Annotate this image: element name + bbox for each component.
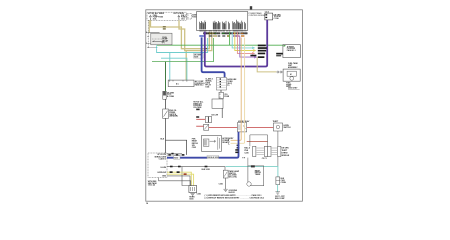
DLC relay box	[202, 135, 235, 151]
svg-text:SWITCH: SWITCH	[284, 127, 292, 129]
border frame	[146, 10, 303, 201]
svg-text:C305: C305	[197, 194, 201, 196]
svg-text:W/ LGTS): W/ LGTS)	[229, 176, 237, 178]
svg-text:C305: C305	[219, 184, 223, 186]
connector C410	[276, 177, 287, 185]
right row labels	[250, 45, 266, 58]
wire red R1	[196, 118, 205, 120]
svg-text:DK BLU S210: DK BLU S210	[208, 157, 219, 159]
label chip pump feed	[276, 53, 283, 57]
wire b7 to pairs	[277, 131, 279, 146]
PCM wire color code chips row2	[199, 35, 244, 36]
svg-text:TIMER: TIMER	[255, 174, 261, 176]
wire thin purple right P2	[240, 36, 256, 58]
horn component	[189, 186, 197, 193]
wire red R3	[209, 127, 238, 129]
svg-text:CONN: CONN	[281, 182, 287, 184]
svg-text:CIG LTR: CIG LTR	[211, 114, 219, 116]
wire green right G5	[229, 32, 231, 45]
note text block bottom left	[148, 181, 158, 187]
svg-text:MODULE: MODULE	[282, 155, 290, 157]
legend notes bottom	[205, 194, 264, 199]
svg-text:ASSEMBLY: ASSEMBLY	[288, 66, 298, 69]
svg-text:BLOCK: BLOCK	[229, 192, 236, 194]
wire yellow rows	[167, 172, 191, 185]
PCM box U1	[197, 12, 268, 31]
relay pin stub arrow	[156, 45, 157, 48]
wire cyan C2	[161, 58, 187, 80]
wire purple thick DLC	[205, 20, 267, 67]
tan pair chip	[205, 48, 208, 49]
left dashed box IP	[148, 153, 167, 178]
relay cluster small boxes	[196, 109, 211, 131]
svg-text:4: 4	[146, 31, 147, 34]
wire red R2	[196, 125, 203, 127]
right middle connector field	[250, 135, 268, 146]
svg-text:HORN SW: HORN SW	[158, 172, 167, 174]
wire drop x182	[182, 167, 189, 186]
svg-text:CONTROL MODULE: CONTROL MODULE	[249, 15, 268, 17]
connector pair left	[244, 146, 267, 160]
wire to fuse3	[220, 90, 222, 92]
fuse F1 FUEL PUMP	[150, 15, 164, 20]
fuse F3 below PCM	[219, 92, 230, 98]
svg-text:RELAY: RELAY	[222, 141, 229, 144]
PCM pin labels (vertical text marks)	[200, 20, 246, 30]
inline connector on tan	[277, 71, 283, 73]
svg-text:135-1 (2): 135-1 (2)	[148, 185, 156, 187]
bottom center row drop	[224, 167, 226, 171]
svg-text:( 2 ) WITHOUT REMOTE KEYLESS: ( 2 ) WITHOUT REMOTE KEYLESS ENTRY . . .…	[205, 197, 264, 200]
svg-text:CLASS 2: CLASS 2	[159, 158, 166, 161]
wire red R4	[247, 127, 274, 129]
svg-text:2: 2	[146, 43, 147, 45]
wire down to ground	[219, 178, 226, 189]
svg-text:S202: S202	[174, 157, 178, 159]
PCM pin stubs	[200, 30, 247, 34]
box instrument cluster right	[283, 45, 300, 58]
wire tan to pump T5	[257, 57, 276, 72]
tan wire labels	[163, 26, 166, 29]
ground G117	[275, 192, 286, 200]
svg-text:C1 B6: C1 B6	[274, 18, 279, 20]
wire green G1	[152, 38, 213, 62]
A/C compressor box	[168, 80, 205, 87]
wire navy thick	[202, 37, 225, 77]
ground G100	[189, 193, 201, 200]
svg-text:56: 56	[146, 203, 148, 205]
svg-text:(SENDER): (SENDER)	[169, 116, 178, 118]
box below fuse3	[193, 99, 223, 109]
svg-text:C230: C230	[244, 152, 248, 154]
wire navy row B	[167, 132, 245, 160]
DLC connector block	[205, 77, 237, 90]
connector half marks	[228, 139, 239, 148]
svg-text:PAGE 81-1: PAGE 81-1	[287, 49, 296, 52]
fuse block dashed box	[147, 12, 186, 20]
wire row D gray long	[167, 166, 225, 171]
page ref right	[288, 88, 300, 90]
wire tan T2	[179, 18, 212, 50]
wire relay feed	[149, 32, 160, 35]
labels under box	[288, 62, 298, 69]
connector pair right	[268, 146, 290, 157]
wire red-brown link	[247, 141, 268, 143]
wire tan T3 branch	[185, 51, 187, 80]
wire tan T1	[151, 18, 210, 48]
svg-text:C1: C1	[227, 85, 229, 87]
wire teal row bottom	[226, 166, 278, 177]
box B7 right	[273, 121, 292, 131]
svg-text:BLK S305: BLK S305	[202, 169, 210, 171]
fuse block small dashed box 2	[187, 13, 202, 19]
wire cyan C1	[157, 38, 208, 53]
splice label box S1	[194, 54, 204, 59]
wire cyan right C3	[232, 32, 254, 49]
wire G3	[165, 99, 167, 109]
wire tan fuse drop left	[148, 20, 150, 32]
connector C175	[163, 91, 175, 99]
wire teal down right	[277, 157, 279, 167]
DLC relay box left labels	[192, 138, 199, 149]
wire yellow right Y1	[235, 32, 255, 51]
svg-text:C205: C205	[192, 147, 196, 149]
page number bottom left	[146, 203, 148, 205]
svg-text:B CONN: B CONN	[167, 96, 175, 98]
fuse F2 IGN	[178, 15, 187, 20]
wire orange O2	[231, 38, 245, 144]
wire cyan upper row	[157, 44, 283, 46]
relay K1 fuel pump relay	[151, 33, 172, 45]
switch SW1 oil pressure	[163, 109, 178, 118]
svg-text:ILLUM: ILLUM	[161, 167, 167, 169]
wire down from box	[211, 108, 222, 118]
wire G4	[161, 118, 187, 154]
svg-text:HORN RELAY: HORN RELAY	[238, 120, 250, 123]
svg-text:S208: S208	[194, 57, 198, 59]
svg-text:G100: G100	[189, 198, 193, 200]
connector C2 top right	[265, 11, 281, 20]
wire from dashed box bottom	[159, 178, 191, 186]
left dashed pin strip	[146, 20, 149, 48]
bottom right box	[247, 165, 264, 186]
wire dark green G2 down chain	[165, 62, 167, 92]
wire pink right P1	[237, 32, 254, 54]
ground G103	[223, 189, 237, 194]
drop from field to teal	[247, 158, 249, 167]
wire row F dark	[167, 176, 190, 186]
svg-text:THEFT: THEFT	[273, 121, 280, 123]
wire orange O1	[231, 38, 242, 141]
svg-text:FUSE: FUSE	[224, 96, 230, 98]
wire cyan C1 branch down	[169, 53, 171, 81]
wire row A gray	[167, 153, 184, 156]
svg-text:1045: 1045	[205, 86, 209, 89]
bottom center switch box	[223, 170, 240, 178]
left strip stub wires	[148, 43, 156, 47]
svg-text:ENG COMP: ENG COMP	[275, 198, 285, 200]
relay box B6	[237, 120, 250, 132]
svg-text:C2 C1: C2 C1	[262, 158, 267, 160]
wire teal to ground	[277, 185, 279, 192]
fuel pump module box	[283, 69, 300, 88]
svg-text:PAGE 52-1: PAGE 52-1	[195, 84, 204, 87]
title text above frame	[250, 6, 252, 9]
